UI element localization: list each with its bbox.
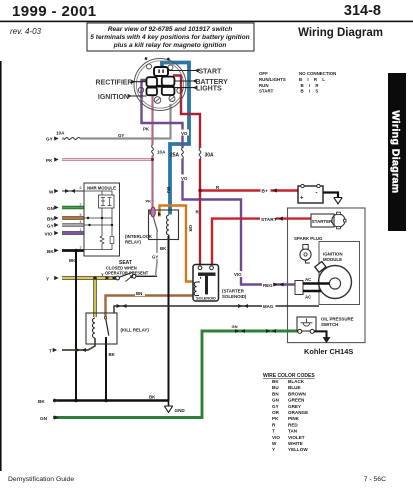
- svg-text:AC: AC: [305, 295, 312, 300]
- svg-text:GY: GY: [118, 133, 124, 138]
- rev note: [10, 27, 42, 36]
- svg-text:SPARK PLUG: SPARK PLUG: [294, 236, 323, 241]
- svg-text:PINK: PINK: [288, 416, 300, 421]
- svg-text:BN: BN: [47, 216, 54, 221]
- svg-text:BU: BU: [272, 385, 279, 390]
- svg-text:VO: VO: [181, 131, 188, 136]
- starter: [311, 212, 346, 229]
- starter solenoid: [193, 265, 247, 302]
- svg-text:AC: AC: [305, 277, 312, 282]
- svg-text:BK: BK: [69, 258, 76, 263]
- wire PK from IGNITION terminal with 10A fuse down to interlock relay: [143, 96, 166, 207]
- svg-text:PK: PK: [146, 199, 152, 204]
- kill relay: [86, 313, 149, 344]
- svg-text:GND: GND: [175, 408, 186, 413]
- svg-text:IGNITION: IGNITION: [98, 94, 129, 101]
- svg-text:BN: BN: [272, 391, 279, 396]
- left page border: [0, 61, 2, 471]
- svg-text:RELAY): RELAY): [125, 240, 141, 245]
- svg-text:YELLOW: YELLOW: [288, 447, 308, 452]
- ground GND symbol at bus end: [164, 401, 185, 414]
- svg-text:PK: PK: [272, 416, 279, 421]
- ignition module: [315, 252, 343, 273]
- wire BN: [47, 213, 84, 221]
- svg-text:GY: GY: [47, 223, 54, 228]
- wire color code legend: [263, 373, 315, 452]
- svg-text:4: 4: [80, 220, 82, 224]
- svg-text:START: START: [259, 89, 274, 94]
- svg-text:(STARTER: (STARTER: [222, 289, 245, 294]
- battery ground wire: [323, 193, 342, 204]
- header subtitle: [298, 27, 383, 39]
- svg-text:WHITE: WHITE: [288, 441, 303, 446]
- spark plug: [294, 236, 323, 263]
- svg-text:5: 5: [80, 213, 82, 217]
- wire Y from connector through seat circuit junction to kill relay coil: [46, 272, 116, 317]
- wire BK from kill relay switch to bus: [106, 337, 116, 401]
- wire BK from NMR module to bus: [69, 251, 76, 401]
- svg-text:BK: BK: [272, 379, 279, 384]
- svg-text:T: T: [49, 349, 52, 354]
- svg-text:IGNITION: IGNITION: [323, 252, 343, 257]
- svg-text:VIO: VIO: [272, 435, 280, 440]
- svg-text:W: W: [49, 189, 54, 194]
- wire GY from interlock relay switch to seat switch: [152, 232, 161, 277]
- svg-text:T: T: [272, 429, 275, 434]
- svg-text:Y: Y: [272, 447, 275, 452]
- switch terminal labels: [169, 68, 223, 75]
- wire MAG kill lead from engine to kill relay: [114, 303, 319, 313]
- wire R B+ to battery: [198, 185, 298, 195]
- wire VIO: [45, 228, 85, 236]
- stator AC leads: [295, 277, 330, 300]
- svg-text:GN: GN: [272, 398, 280, 403]
- svg-text:VO: VO: [181, 176, 188, 181]
- wire BN from kill relay to solenoid coil: [106, 291, 194, 318]
- svg-text:BK: BK: [38, 399, 45, 404]
- interlock relay: [125, 207, 179, 245]
- svg-text:START: START: [199, 68, 223, 75]
- svg-text:BROWN: BROWN: [288, 391, 307, 396]
- header title left: [12, 3, 96, 20]
- svg-text:SWITCH: SWITCH: [321, 322, 338, 327]
- svg-text:25A: 25A: [170, 153, 180, 159]
- header description box: [87, 23, 254, 51]
- wire R start signal from solenoid to starter: [212, 215, 311, 266]
- header title right: [344, 3, 381, 19]
- svg-text:TAN: TAN: [288, 429, 298, 434]
- svg-text:Wiring Diagram: Wiring Diagram: [389, 110, 401, 193]
- svg-text:NMR MODULE: NMR MODULE: [87, 186, 116, 191]
- oil switch ground arrow: [314, 331, 330, 342]
- svg-text:-: -: [316, 191, 318, 197]
- svg-text:Y: Y: [46, 276, 49, 281]
- svg-text:W: W: [272, 441, 277, 446]
- wire BU from switch S terminal to interlock relay: [162, 63, 189, 215]
- svg-text:STARTER: STARTER: [312, 219, 333, 224]
- svg-text:Demystification Guide: Demystification Guide: [8, 476, 74, 483]
- wire BK from interlock relay coil to bus and ground: [160, 236, 169, 401]
- svg-text:RUN/LIGHTS: RUN/LIGHTS: [259, 77, 286, 82]
- svg-text:Rear view of 92-6785 and 10191: Rear view of 92-6785 and 101917 switch: [108, 26, 233, 33]
- svg-text:MAG: MAG: [263, 304, 274, 309]
- svg-text:VIO: VIO: [45, 231, 53, 236]
- svg-text:SOLENOID: SOLENOID: [196, 296, 216, 300]
- seat switch: [105, 260, 157, 282]
- wire GN: [47, 203, 84, 211]
- svg-text:B I R L: B I R L: [299, 77, 327, 82]
- svg-text:BLUE: BLUE: [288, 385, 301, 390]
- svg-text:NO CONNECTION: NO CONNECTION: [299, 71, 336, 76]
- svg-text:PK: PK: [46, 158, 53, 163]
- wire W: [49, 186, 84, 194]
- footer right: [364, 476, 386, 483]
- wire GY: [47, 220, 84, 228]
- svg-text:BLACK: BLACK: [288, 379, 305, 384]
- svg-text:GN: GN: [40, 416, 48, 421]
- svg-text:ORANGE: ORANGE: [288, 410, 308, 415]
- header rule: [0, 21, 413, 23]
- footer left: [8, 476, 74, 483]
- NMR module box: [84, 183, 120, 256]
- svg-text:SOLENOID): SOLENOID): [222, 294, 247, 299]
- svg-text:PK: PK: [143, 127, 150, 132]
- svg-text:RECTIFIER: RECTIFIER: [96, 80, 133, 87]
- svg-text:RUN: RUN: [259, 83, 269, 88]
- terminal cross: [147, 68, 175, 95]
- svg-text:BU: BU: [166, 187, 171, 193]
- wire VIO from RECTIFIER terminal with 25A fuse to engine REG: [142, 80, 296, 288]
- svg-text:GY: GY: [46, 137, 53, 142]
- svg-text:GY: GY: [272, 404, 279, 409]
- flywheel housing inner box: [319, 242, 360, 305]
- svg-text:GY: GY: [152, 254, 158, 259]
- svg-text:OR: OR: [188, 225, 193, 232]
- svg-text:(KILL RELAY): (KILL RELAY): [121, 328, 150, 333]
- svg-text:BK: BK: [149, 395, 156, 400]
- svg-text:2: 2: [80, 203, 82, 207]
- wire BK ground bus: [38, 395, 169, 405]
- svg-text:30A: 30A: [205, 153, 215, 159]
- svg-text:OPERATOR PRESENT: OPERATOR PRESENT: [105, 271, 149, 276]
- svg-text:7 - 56C: 7 - 56C: [364, 476, 386, 483]
- svg-text:5 terminals with 4 key positio: 5 terminals with 4 key positions for bat…: [90, 34, 249, 41]
- svg-text:REG: REG: [263, 283, 273, 288]
- svg-text:10A: 10A: [56, 131, 65, 136]
- svg-text:Wiring Diagram: Wiring Diagram: [298, 27, 383, 39]
- svg-text:BN: BN: [136, 291, 142, 296]
- terminal blocks: [154, 67, 168, 76]
- svg-text:B I S: B I S: [301, 89, 321, 94]
- screws: [154, 97, 161, 104]
- svg-text:GN: GN: [232, 324, 238, 329]
- svg-text:(INTERLOCK: (INTERLOCK: [125, 234, 153, 239]
- wire BK module row: [47, 246, 84, 254]
- svg-text:rev. 4-03: rev. 4-03: [10, 27, 42, 36]
- engine label: [304, 347, 353, 356]
- wire GN long run to oil pressure switch: [40, 324, 298, 421]
- svg-text:OR: OR: [272, 410, 280, 415]
- svg-text:3: 3: [80, 246, 82, 250]
- svg-text:BK: BK: [160, 246, 167, 251]
- svg-text:MODULE: MODULE: [323, 257, 342, 262]
- svg-text:START: START: [261, 217, 277, 223]
- engine boundary Kohler CH14S: [288, 208, 366, 343]
- svg-text:VIO: VIO: [234, 272, 242, 277]
- svg-text:OFF: OFF: [259, 71, 268, 76]
- flywheel magneto: [319, 266, 352, 299]
- svg-text:BK: BK: [47, 249, 54, 254]
- svg-text:1999 - 2001: 1999 - 2001: [12, 3, 96, 20]
- wire T tan to kill relay coil: [49, 338, 95, 354]
- svg-text:Kohler CH14S: Kohler CH14S: [304, 347, 353, 356]
- wire R maroon from BATTERY terminal with 30A fuse down to starter solenoid: [173, 76, 214, 266]
- svg-text:1: 1: [80, 228, 82, 232]
- svg-text:B+: B+: [262, 189, 268, 195]
- svg-text:6: 6: [80, 186, 82, 190]
- oil pressure switch: [297, 317, 354, 334]
- svg-text:OIL PRESSURE: OIL PRESSURE: [321, 317, 354, 322]
- sidebar tab: [388, 73, 406, 231]
- svg-text:RED: RED: [288, 422, 298, 427]
- key position legend table: [259, 71, 336, 94]
- svg-text:GREEN: GREEN: [288, 398, 305, 403]
- svg-text:plus a kill relay for magneto: plus a kill relay for magneto ignition: [113, 42, 227, 49]
- svg-text:+: +: [300, 196, 304, 202]
- svg-text:10A: 10A: [157, 150, 166, 155]
- battery: [298, 184, 323, 203]
- svg-text:GN: GN: [47, 206, 55, 211]
- svg-text:Y: Y: [101, 272, 104, 277]
- ignition key switch body: [134, 57, 186, 110]
- wire OR from interlock relay to solenoid coil: [160, 206, 194, 282]
- svg-text:314-8: 314-8: [344, 3, 381, 19]
- svg-text:LIGHTS: LIGHTS: [196, 85, 222, 92]
- wire PK long branch to connector: [46, 157, 153, 162]
- svg-text:BK: BK: [109, 352, 116, 357]
- svg-text:B I R: B I R: [301, 83, 321, 88]
- wire GY from LIGHTS terminal with 10A fuse to connector: [46, 104, 171, 142]
- svg-text:VIOLET: VIOLET: [288, 435, 305, 440]
- svg-text:GREY: GREY: [288, 404, 301, 409]
